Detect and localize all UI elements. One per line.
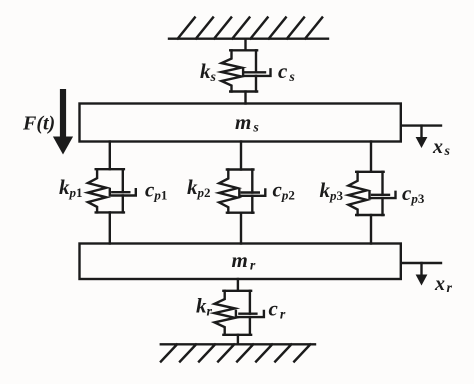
svg-text:F(t): F(t) bbox=[22, 113, 55, 135]
